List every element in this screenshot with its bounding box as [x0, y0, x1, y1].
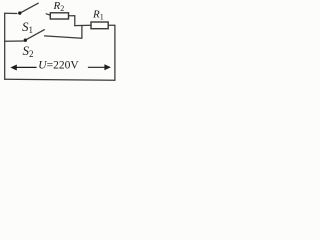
wire R2 output — [69, 15, 75, 17]
wire S2 branch left — [5, 40, 24, 42]
wire bottom — [5, 78, 115, 81]
wire S2 fixed contact to node A — [45, 36, 82, 38]
wire top-left to S1 — [5, 12, 17, 14]
wire R1 row right — [108, 24, 115, 26]
arrow right (voltage annotation) — [88, 64, 111, 70]
switch S2 blade — [27, 30, 45, 40]
switch S2 pivot dot — [24, 39, 27, 42]
wire right vertical — [114, 25, 116, 80]
resistor R1 — [91, 22, 108, 29]
wire vertical R2 to R1 row — [74, 16, 76, 26]
wire junction vertical node A — [81, 26, 83, 39]
wire R1 row left — [75, 24, 91, 26]
svg-text:U=220V: U=220V — [38, 59, 79, 71]
switch S1 blade — [21, 3, 39, 13]
wire left vertical — [4, 13, 6, 79]
switch S1 pivot dot — [18, 11, 21, 14]
wire S1 fixed contact — [46, 14, 50, 15]
arrow left (voltage annotation) — [10, 65, 36, 71]
resistor R2 — [50, 13, 68, 19]
